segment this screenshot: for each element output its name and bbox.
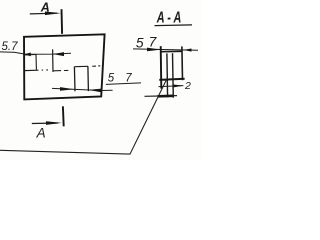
dim 2 line — [159, 86, 184, 87]
section arrow (bottom) — [32, 122, 58, 125]
section arrowhead (bottom) — [46, 121, 62, 125]
slot 1 bottom edge — [24, 69, 39, 71]
arrowhead at section left wall — [147, 48, 161, 52]
dim 2 arrowhead — [174, 85, 184, 88]
title underline — [155, 24, 193, 27]
svg-text:5.7: 5.7 — [2, 41, 19, 53]
section bottom edge — [159, 79, 184, 80]
arrowhead at slot2 left — [60, 87, 74, 91]
svg-text:2: 2 — [184, 80, 191, 92]
section left wall — [160, 46, 163, 88]
lower leader arrow line — [145, 95, 178, 98]
section arrowhead (top) — [45, 12, 61, 16]
inner slot vertical edge — [52, 49, 54, 72]
slot 2 right edge — [87, 66, 90, 91]
section inner wall 1 — [166, 53, 169, 97]
slot 1 top edge — [24, 54, 36, 56]
arrowhead at section right wall — [183, 49, 191, 52]
centerline dash-dot — [42, 66, 101, 71]
section top dimension line — [133, 49, 198, 50]
dim 5 7 underline — [106, 83, 141, 85]
arrowhead at slot2 right — [89, 89, 102, 93]
dim 5.7 leader line — [0, 52, 71, 54]
section inner wall 2 — [172, 53, 175, 97]
section arrow (top) — [30, 12, 57, 15]
section tick line (top) — [61, 9, 64, 34]
slot 2 left edge — [73, 67, 76, 92]
lower leader arrow blob — [158, 94, 174, 97]
plate outline rectangle — [24, 34, 105, 99]
dim 5.7 arrowhead at plate edge — [24, 53, 31, 57]
slot 1 right edge — [35, 55, 37, 70]
svg-text:7: 7 — [125, 72, 132, 84]
dim 5 7 line (bottom of plate) — [52, 88, 113, 90]
svg-text:A - A: A - A — [156, 10, 181, 27]
arrowhead at inner slot edge — [53, 52, 64, 56]
slot 2 top edge — [74, 65, 88, 67]
long leader polyline to bottom border — [0, 80, 167, 155]
svg-text:A: A — [36, 125, 46, 140]
section tick line (bottom) — [62, 106, 65, 126]
section top edge — [161, 50, 183, 52]
section right wall — [181, 46, 184, 80]
svg-text:7: 7 — [149, 35, 158, 50]
svg-text:5: 5 — [108, 73, 115, 85]
svg-text:5: 5 — [136, 35, 144, 50]
